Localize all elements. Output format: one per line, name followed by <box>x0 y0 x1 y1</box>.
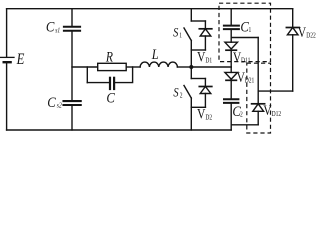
wire right column vertical <box>257 38 259 104</box>
wire S1-VD1 top connector <box>191 20 205 22</box>
resistor R <box>98 63 127 70</box>
battery E <box>0 57 14 130</box>
diode VD1 <box>199 21 212 50</box>
wire VD22 bottom to column <box>258 90 293 92</box>
svg-text:s1: s1 <box>55 27 60 35</box>
capacitor Cs2 <box>64 101 81 105</box>
wire C2 bottom <box>230 104 232 130</box>
wire bottom rail <box>7 129 232 131</box>
inductor L <box>140 62 177 67</box>
wire S2-VD2 bottom connector <box>191 106 205 108</box>
svg-text:E: E <box>16 51 25 68</box>
wire R to L <box>126 66 140 68</box>
wire Cs branch top <box>71 9 73 26</box>
wire left rail upper <box>6 9 8 57</box>
diode VD12 <box>252 104 265 125</box>
svg-text:V: V <box>197 48 206 65</box>
svg-text:V: V <box>263 102 272 119</box>
wire R to C tap <box>86 67 88 83</box>
wire C2 to VD12 connector <box>231 124 258 126</box>
wire top rail right drop <box>292 9 294 28</box>
node phase junction dot <box>189 65 193 69</box>
wire top rail <box>7 8 293 10</box>
svg-text:S: S <box>173 85 178 99</box>
diode VD21 <box>225 67 238 98</box>
svg-text:C: C <box>46 20 55 36</box>
diode VD2 <box>199 79 212 108</box>
svg-text:2: 2 <box>240 111 243 119</box>
diode VD22 <box>286 28 299 92</box>
dashed box snubber cell 1 <box>219 3 271 61</box>
wire main to R <box>72 66 98 68</box>
svg-text:C: C <box>47 95 56 111</box>
svg-text:1: 1 <box>179 32 182 40</box>
switch S2 <box>184 67 191 130</box>
wire C left <box>87 82 109 84</box>
svg-text:D2: D2 <box>205 114 212 122</box>
wire C right <box>115 67 132 83</box>
capacitor C1 <box>224 26 239 30</box>
switch S1 <box>184 9 191 67</box>
svg-text:V: V <box>298 24 307 41</box>
wire Cs branch bottom <box>71 106 73 130</box>
capacitor Cs1 <box>64 27 80 31</box>
svg-text:2: 2 <box>180 92 183 100</box>
wire Cs mid <box>71 32 73 100</box>
svg-text:s2: s2 <box>57 102 63 110</box>
svg-text:D12: D12 <box>272 110 282 118</box>
svg-text:R: R <box>105 48 113 65</box>
svg-text:S: S <box>173 26 178 40</box>
wire J1 to right column <box>231 37 258 39</box>
wire S1-VD1 bottom connector <box>191 49 205 51</box>
svg-text:D11: D11 <box>241 57 250 65</box>
capacitor C <box>110 78 114 89</box>
svg-text:C: C <box>106 90 115 106</box>
svg-text:V: V <box>197 105 206 122</box>
wire C1 to J1 <box>230 30 232 42</box>
wire S2-VD2 top connector <box>191 78 205 80</box>
dashed box snubber cell 2 <box>247 63 271 133</box>
wire C1 branch top <box>230 9 232 25</box>
wire phase node to right section <box>191 66 231 68</box>
svg-text:D1: D1 <box>205 57 212 65</box>
wire L to node <box>177 66 191 68</box>
svg-text:L: L <box>151 46 159 62</box>
capacitor C2 <box>224 99 238 103</box>
svg-text:D22: D22 <box>306 32 316 40</box>
diode VD11 <box>225 42 238 67</box>
svg-text:1: 1 <box>249 27 252 35</box>
svg-text:D21: D21 <box>245 77 255 85</box>
